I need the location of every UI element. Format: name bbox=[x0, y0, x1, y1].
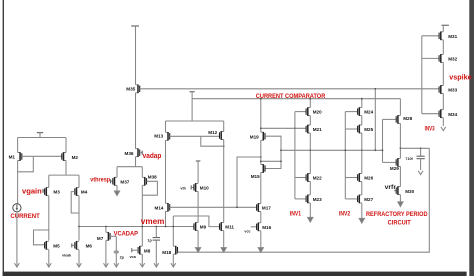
ground under M18 bbox=[171, 263, 176, 267]
wire M12 diode connection bbox=[201, 136, 224, 146]
wire M29 source down to M30 bbox=[399, 166, 401, 186]
wire INV1 output rail to refractory gates bbox=[281, 149, 383, 151]
wire M20 drain to M21 bbox=[309, 116, 311, 125]
wire vmem branch to M11 gate bbox=[173, 216, 219, 227]
ground under M5 bbox=[46, 263, 51, 267]
current source CURRENT bbox=[13, 204, 21, 212]
frame right border bbox=[469, 0, 474, 276]
wire M31 drain to M32 bbox=[442, 40, 444, 55]
wire INV3 input stub M34 bbox=[422, 113, 439, 115]
ground arrow under M9 bbox=[196, 248, 201, 253]
wire M28 gate stub bbox=[383, 118, 397, 120]
wire vadap stub with pin tick bbox=[140, 151, 143, 155]
svg-text:M29: M29 bbox=[390, 166, 399, 171]
wire INV2 input stub M25 bbox=[345, 128, 357, 130]
svg-text:M25: M25 bbox=[364, 127, 373, 132]
svg-text:CURRENT COMPARATOR: CURRENT COMPARATOR bbox=[256, 93, 326, 100]
wire M5 diode loop bbox=[34, 230, 49, 245]
wire INV1 input stub M22 bbox=[295, 177, 306, 179]
transistor M25 bbox=[358, 125, 374, 134]
node dot 710f tap bbox=[420, 147, 422, 149]
node dot on M14-M17 gate rail bbox=[236, 206, 238, 208]
wire M9 source down bbox=[197, 231, 199, 248]
vdd symbol above M35 bbox=[131, 26, 139, 85]
svg-text:REFRACTORY PERIOD: REFRACTORY PERIOD bbox=[366, 212, 428, 218]
transistor M38 bbox=[142, 174, 157, 185]
ground arrow under M30 bbox=[398, 202, 403, 207]
wire M3 source down to M5 bbox=[48, 196, 50, 241]
svg-text:M16: M16 bbox=[262, 225, 271, 230]
transistor M28 bbox=[396, 115, 412, 124]
node dot comparator column on supply rail bbox=[260, 98, 262, 100]
wire M16 source down bbox=[260, 231, 262, 248]
transistor M20 bbox=[306, 107, 322, 116]
wire M1 diode connection bbox=[18, 156, 34, 172]
svg-text:M28: M28 bbox=[403, 116, 412, 121]
frame left border bbox=[3, 0, 4, 276]
svg-text:M22: M22 bbox=[313, 176, 322, 181]
wire M6 source to ground bbox=[78, 250, 80, 267]
svg-text:M32: M32 bbox=[448, 57, 457, 62]
wire M28/M29 gate column bbox=[382, 119, 384, 162]
wire M14 gate rail to M17 gate bbox=[170, 206, 257, 208]
transistor M31 bbox=[439, 32, 457, 41]
wire M38 drain down to vmem rail and M8 bbox=[141, 185, 143, 246]
svg-text:vspike: vspike bbox=[449, 72, 471, 81]
wire INV1 input stub M20 bbox=[295, 111, 306, 113]
node dot M38/M8 on vmem rail bbox=[141, 226, 143, 228]
wire M19 drain to M15 drain bbox=[260, 140, 262, 164]
wire M34 source down bbox=[442, 118, 444, 126]
svg-text:M26: M26 bbox=[364, 176, 373, 181]
wire current source to ground bbox=[16, 212, 18, 267]
node dot M14 source on vmem rail bbox=[165, 226, 167, 228]
transistor M5 bbox=[45, 241, 61, 250]
wire M3/M4 top rail bbox=[49, 175, 79, 187]
svg-text:M2: M2 bbox=[72, 155, 79, 160]
svg-text:M20: M20 bbox=[313, 110, 322, 115]
wire M22 drain up to output bbox=[309, 150, 311, 173]
wire M2 source up bbox=[65, 138, 67, 153]
node dot feed on comparator column bbox=[260, 127, 262, 129]
wire M18 drain from vmem rail down, branch to M11 gate wire bbox=[172, 216, 174, 246]
svg-text:INV1: INV1 bbox=[290, 211, 301, 218]
transistor M21 bbox=[306, 125, 322, 134]
wire M7 source to ground bbox=[105, 240, 107, 266]
wire M18 source to ground bbox=[172, 254, 174, 266]
wire M14 source down to vmem rail bbox=[165, 211, 167, 226]
wire vgain stub to M3 gate bbox=[43, 189, 45, 193]
svg-text:M14: M14 bbox=[155, 205, 164, 210]
node dot spike rail junction bbox=[374, 88, 376, 90]
svg-text:M31: M31 bbox=[448, 34, 457, 39]
wire M6 gate stub vleak bbox=[72, 243, 75, 247]
node dot M24 on supply rail bbox=[361, 98, 363, 100]
wire vcc stub to M16 gate bbox=[251, 226, 257, 228]
svg-text:vadap: vadap bbox=[143, 153, 162, 160]
svg-text:M13: M13 bbox=[154, 134, 163, 139]
transistor M7 bbox=[97, 232, 110, 241]
transistor M2 bbox=[62, 152, 79, 161]
wire M32 drain to M33 vspike node bbox=[442, 62, 444, 85]
wire M37 source down bbox=[116, 185, 118, 191]
svg-text:M7: M7 bbox=[97, 236, 104, 241]
transistor M29 bbox=[390, 158, 401, 171]
svg-text:M19: M19 bbox=[250, 134, 259, 139]
wire M13/M12 mirror top rail bbox=[166, 121, 224, 132]
svg-text:M1: M1 bbox=[9, 155, 16, 160]
ground arrow under M27 bbox=[359, 218, 364, 223]
wire INV1 input stub M23 bbox=[295, 198, 306, 200]
ground under M6 bbox=[77, 263, 82, 267]
wire M8 gate stub vca bbox=[132, 248, 138, 252]
wire M21 drain down to INV1 output bbox=[309, 133, 311, 150]
node dot refractory cap node bbox=[400, 147, 402, 149]
wire M28 drain down to M29 bbox=[399, 123, 401, 158]
svg-text:M12: M12 bbox=[208, 130, 217, 135]
svg-text:vca: vca bbox=[130, 255, 137, 259]
vdd symbol on supply rail bbox=[190, 92, 195, 99]
ground under 1p cap bbox=[154, 263, 159, 267]
node dot M12 drain diode bbox=[223, 145, 225, 147]
wire vmem rail bbox=[79, 226, 194, 228]
wire M11 source down bbox=[223, 231, 225, 248]
transistor M12 bbox=[208, 130, 224, 140]
svg-text:M10: M10 bbox=[200, 186, 209, 191]
svg-text:vmem: vmem bbox=[141, 217, 165, 226]
ground arrow under M34 bbox=[441, 127, 446, 131]
transistor M23 bbox=[306, 195, 322, 204]
wire M38 gate diode loop bbox=[142, 181, 157, 195]
wire M23 source down bbox=[309, 203, 311, 218]
node dot on output rail bbox=[374, 149, 376, 151]
wire M2 drain down bbox=[65, 161, 67, 176]
transistor M37 bbox=[113, 177, 130, 186]
vdd symbol above M10 bbox=[196, 161, 201, 183]
svg-text:M37: M37 bbox=[120, 179, 129, 184]
wire M1-M2 gate rail bbox=[22, 155, 62, 157]
wire vrfr stub to M30 gate bbox=[394, 190, 396, 192]
svg-text:M21: M21 bbox=[313, 127, 322, 132]
vdd symbol above M1/M2 bbox=[37, 133, 43, 138]
wire INV3 input stub M32 bbox=[422, 57, 439, 59]
node dot gate column on output rail bbox=[382, 149, 384, 151]
transistor M16 bbox=[257, 223, 272, 232]
wire refractory feedback to M18 gate bbox=[178, 148, 430, 252]
wire M24 source up to supply rail bbox=[361, 99, 363, 108]
svg-text:INV2: INV2 bbox=[339, 211, 350, 218]
svg-text:vgain: vgain bbox=[22, 186, 42, 195]
wire INV2 input stub M26 bbox=[345, 177, 357, 179]
transistor M4 bbox=[75, 187, 88, 196]
transistor M9 bbox=[194, 222, 207, 231]
svg-text:M6: M6 bbox=[86, 244, 93, 249]
svg-text:vthresp: vthresp bbox=[90, 178, 110, 184]
svg-text:M27: M27 bbox=[364, 197, 373, 202]
svg-text:INV3: INV3 bbox=[425, 126, 435, 133]
transistor M18 bbox=[162, 246, 177, 255]
wire M35 drain down to M36 bbox=[135, 93, 137, 149]
svg-text:M18: M18 bbox=[162, 250, 171, 255]
wire M30 source down bbox=[399, 195, 401, 202]
node dot M20 on supply rail bbox=[309, 98, 311, 100]
transistor M11 bbox=[220, 222, 235, 231]
wire M29 gate stub bbox=[383, 161, 397, 163]
transistor M10 bbox=[194, 183, 209, 192]
node dot feed on INV1 input column bbox=[294, 127, 296, 129]
ground under M8 bbox=[140, 263, 145, 267]
ground under 2p cap bbox=[114, 263, 119, 267]
node dot INV2 output bbox=[361, 149, 363, 151]
transistor M8 bbox=[138, 246, 151, 255]
svg-text:M24: M24 bbox=[364, 110, 373, 115]
transistor M17 bbox=[257, 203, 272, 212]
transistor M34 bbox=[439, 109, 457, 118]
node dot M15 gate loop bbox=[280, 160, 282, 162]
wire M19 gate loop to M15 gate bbox=[265, 136, 281, 168]
transistor M33 bbox=[439, 85, 457, 94]
svg-text:M17: M17 bbox=[262, 206, 271, 211]
svg-text:M5: M5 bbox=[53, 244, 60, 249]
transistor M27 bbox=[358, 195, 374, 204]
wire M10 drain down to M9 bbox=[197, 191, 199, 222]
node dot M7 drain bbox=[105, 226, 107, 228]
wire M12 drain down to M11 bbox=[223, 140, 225, 223]
svg-text:1p: 1p bbox=[147, 239, 152, 243]
ground arrow under M11 bbox=[221, 248, 226, 253]
wire supply rail bbox=[192, 98, 400, 100]
vdd symbol above M31 bbox=[442, 25, 449, 31]
wire INV3 input column bbox=[421, 36, 423, 114]
svg-text:M11: M11 bbox=[225, 225, 234, 230]
wire comparator output to M17/M14 gate rail bbox=[237, 157, 261, 207]
transistor M14 bbox=[155, 203, 170, 212]
ground arrow under M23 bbox=[308, 217, 313, 222]
svg-text:2p: 2p bbox=[120, 255, 125, 259]
svg-text:M36: M36 bbox=[125, 151, 134, 156]
node dot comparator output bbox=[260, 156, 262, 158]
wire M33 source to M34 bbox=[442, 94, 444, 110]
svg-text:M30: M30 bbox=[405, 189, 414, 194]
wire vth stub to M10 gate bbox=[191, 185, 194, 189]
svg-text:CIRCUIT: CIRCUIT bbox=[388, 219, 411, 226]
svg-text:M8: M8 bbox=[144, 249, 151, 254]
wire vthresp stub to M37 gate bbox=[111, 179, 113, 183]
svg-text:M38: M38 bbox=[148, 174, 157, 179]
wire M15 drain tap bbox=[261, 160, 281, 162]
wire M24 drain to M25 bbox=[361, 116, 363, 125]
wire INV1 input column bbox=[294, 112, 296, 199]
wire M8 source to ground bbox=[141, 254, 143, 266]
wire INV2 input column bbox=[344, 112, 346, 199]
svg-text:M3: M3 bbox=[53, 190, 60, 195]
wire M27 source down bbox=[361, 203, 363, 219]
wire M7 drain from vmem rail bbox=[105, 227, 107, 233]
node dot INV1 out left end bbox=[280, 149, 282, 151]
node dot M15 drain tap bbox=[260, 160, 262, 162]
wire INV2 input stub M27 bbox=[345, 198, 357, 200]
wire M4 gate diode loop bbox=[71, 192, 79, 213]
wire INV1 feed from comparator to M21 gate bbox=[261, 127, 306, 129]
svg-text:M4: M4 bbox=[81, 190, 88, 195]
wire M1 drain down to current source bbox=[17, 161, 19, 204]
wire M17 source down to M16 bbox=[260, 212, 262, 223]
transistor M26 bbox=[358, 173, 374, 182]
transistor M3 bbox=[45, 187, 61, 196]
transistor M15 bbox=[251, 164, 265, 179]
transistor M35 bbox=[126, 85, 139, 94]
svg-text:M15: M15 bbox=[251, 174, 260, 179]
wire M15 source down to M17 bbox=[260, 173, 262, 204]
wire M4 source down to M6 bbox=[78, 196, 80, 241]
svg-text:CURRENT: CURRENT bbox=[10, 213, 40, 220]
svg-text:M35: M35 bbox=[126, 87, 135, 92]
svg-text:vrfr: vrfr bbox=[385, 184, 397, 191]
wire M25 drain down to INV2 output bbox=[361, 133, 363, 150]
wire cap node to 710f and feedback corner bbox=[400, 147, 429, 149]
node dot INV2 input on output rail bbox=[344, 149, 346, 151]
wire INV3 input stub M31 bbox=[422, 35, 439, 37]
node dot M18 on vmem rail bbox=[172, 226, 174, 228]
capacitor 710f bbox=[405, 148, 424, 170]
svg-text:M33: M33 bbox=[448, 88, 457, 93]
transistor M30 bbox=[396, 186, 414, 195]
wire comparator column from supply rail to M19 bbox=[260, 99, 262, 133]
ground under M37 bbox=[114, 191, 119, 196]
wire supply rail corner down to M28 bbox=[399, 99, 401, 116]
ground arrow under M16 bbox=[258, 248, 263, 253]
svg-text:M23: M23 bbox=[313, 197, 322, 202]
wire M20 source up to supply rail bbox=[309, 99, 311, 108]
frame bottom border bbox=[3, 272, 467, 276]
transistor M36 bbox=[125, 148, 140, 157]
svg-text:VCADAP: VCADAP bbox=[114, 231, 138, 238]
wire spike rail drop to INV1 output rail bbox=[374, 89, 376, 151]
svg-text:vcc: vcc bbox=[244, 229, 250, 233]
wire spike rail from M35 gate to INV3 bbox=[140, 88, 440, 90]
svg-text:M34: M34 bbox=[448, 112, 457, 117]
wire supply drop to mirror rail bbox=[191, 99, 193, 121]
wire M26 drain up to output bbox=[361, 150, 363, 173]
ground under current source bbox=[15, 263, 20, 267]
wire M36 drain node to M37 and M38 bbox=[117, 157, 142, 178]
ground arrow under 710f cap bbox=[418, 171, 423, 175]
wire M13-M12 gate rail bbox=[170, 135, 220, 137]
svg-text:M9: M9 bbox=[200, 225, 207, 230]
wire INV2 input stub M24 bbox=[345, 111, 357, 113]
wire M5 source to ground bbox=[48, 250, 50, 267]
svg-text:vleak: vleak bbox=[62, 253, 72, 257]
node dot INV1 output bbox=[309, 149, 311, 151]
wire M1 source up bbox=[17, 138, 19, 153]
capacitor 2p (adaptation cap) bbox=[114, 236, 125, 266]
wire M7 gate stub to vcadap node bbox=[110, 235, 116, 237]
transistor M32 bbox=[439, 54, 457, 63]
svg-text:710f: 710f bbox=[405, 157, 413, 161]
wire M13 drain down to M14 bbox=[165, 140, 167, 203]
transistor M19 bbox=[250, 132, 265, 141]
transistor M22 bbox=[306, 173, 322, 182]
ground under M7 bbox=[104, 263, 109, 267]
wire M22 source to M23 bbox=[309, 182, 311, 195]
node dot vmem-M4 column bbox=[78, 226, 80, 228]
wire M26 source to M27 bbox=[361, 182, 363, 195]
transistor M6 bbox=[75, 241, 93, 250]
capacitor 1p (membrane cap) bbox=[147, 227, 160, 267]
transistor M1 bbox=[9, 152, 22, 161]
wire vdd rail M1-M2 bbox=[18, 137, 66, 139]
transistor M13 bbox=[154, 132, 170, 141]
node dot 1p cap on vmem rail bbox=[155, 226, 157, 228]
svg-text:vth: vth bbox=[180, 186, 186, 190]
transistor M24 bbox=[358, 107, 374, 116]
